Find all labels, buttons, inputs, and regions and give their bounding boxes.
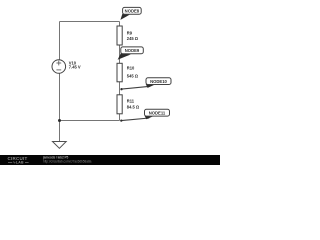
svg-text:R10: R10 bbox=[127, 65, 135, 70]
svg-text:NODE11: NODE11 bbox=[149, 110, 166, 115]
svg-text:7.45 V: 7.45 V bbox=[69, 65, 81, 70]
svg-text:NODE10: NODE10 bbox=[150, 79, 167, 84]
svg-text:NODE9: NODE9 bbox=[125, 48, 140, 53]
svg-text:245 Ω: 245 Ω bbox=[127, 36, 139, 41]
svg-text:NODE8: NODE8 bbox=[125, 8, 140, 13]
svg-text:R9: R9 bbox=[127, 31, 133, 36]
svg-text:http://circuitlab.com/c/7ac66b: http://circuitlab.com/c/7ac66b58a8a bbox=[43, 160, 92, 164]
svg-text:∿LAB: ∿LAB bbox=[13, 161, 24, 165]
svg-text:545 Ω: 545 Ω bbox=[127, 74, 139, 79]
svg-text:R11: R11 bbox=[127, 98, 135, 103]
svg-text:84.5 Ω: 84.5 Ω bbox=[127, 105, 140, 110]
